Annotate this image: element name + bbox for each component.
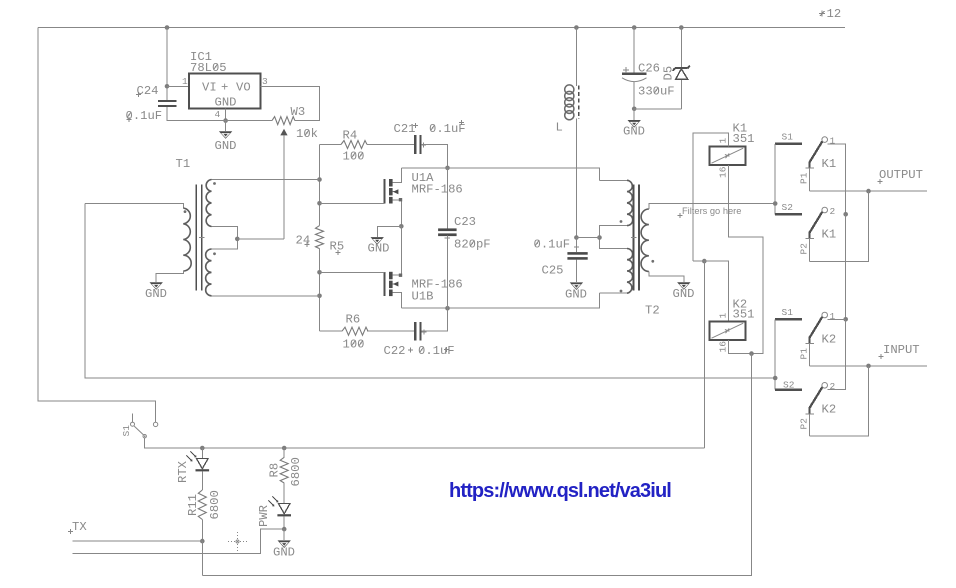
wire T1 center tap — [212, 227, 238, 250]
svg-text:3: 3 — [262, 76, 268, 87]
svg-text:C21: C21 — [394, 122, 416, 136]
svg-text:GND: GND — [623, 125, 645, 139]
wire K1 contacts common loop — [774, 144, 776, 214]
svg-text:C22: C22 — [384, 344, 406, 358]
node cursor crosshair — [228, 532, 247, 551]
node O1 pivot circle K2a — [822, 312, 828, 318]
wire OUTPUT line — [810, 190, 927, 192]
node junction dot PWR/GND — [282, 527, 287, 532]
resistor R8 6800 — [268, 448, 304, 503]
transformer T1 primary winding — [183, 208, 191, 271]
transformer T2 primary bottom winding — [627, 249, 633, 294]
wire top drain rail U1A to T2 — [401, 168, 599, 180]
node junction dot top rail at IC1 branch — [165, 25, 170, 30]
node junction dot relay coils return — [749, 351, 754, 356]
resistor R11 6800 — [186, 490, 222, 541]
wire T1 primary bottom lead — [156, 271, 183, 282]
svg-text:78L05: 78L05 — [190, 61, 227, 75]
node junction dot O1 K2a — [843, 317, 848, 322]
node junction dot K2 common feed — [773, 376, 778, 381]
wire relay feed down to S1 — [703, 261, 705, 448]
wire T2 primary top lead — [599, 179, 627, 181]
wire pin1 to IC1 — [167, 85, 189, 87]
node junction dot T2 center tap — [597, 235, 602, 240]
node O2 pivot circle K2b — [822, 383, 828, 389]
node junction dot U1A gate — [317, 201, 322, 206]
wire P1 terminal K1a — [805, 168, 814, 191]
wire center tap to W3 wiper — [237, 238, 284, 240]
capacitor C25 0.1uF — [534, 237, 588, 282]
switch armature K1b — [810, 212, 823, 233]
wire bottom drain rail U1B to T2 — [401, 293, 599, 308]
switch S1 power — [121, 414, 158, 438]
ground GND under IC1 pin4 — [215, 121, 237, 153]
node T2 secondary phase dot — [651, 260, 654, 263]
wire O2 junction K1b — [843, 212, 848, 217]
svg-text:R5: R5 — [330, 240, 345, 254]
node junction dot INPUT — [866, 364, 871, 369]
svg-text:S1: S1 — [782, 132, 794, 143]
wire pin3 loop to W3 right end — [261, 86, 320, 120]
svg-text:351: 351 — [733, 307, 755, 321]
relay K1 coil 351 — [709, 122, 754, 166]
svg-text:24: 24 — [296, 234, 311, 248]
svg-text:2: 2 — [830, 206, 836, 217]
svg-text:L: L — [556, 121, 563, 135]
svg-text:R6: R6 — [346, 313, 361, 327]
wire P2 bottom loop to OUTPUT — [810, 191, 869, 261]
node junction dot K1 common feed — [773, 201, 778, 206]
wire U1B gate — [320, 271, 385, 273]
transformer T1 secondary bottom winding — [206, 249, 212, 296]
node junction dot T1 center tap — [235, 237, 240, 242]
wire left input loop — [85, 203, 775, 378]
wire P2 terminal K1b — [805, 239, 814, 262]
svg-text:GND: GND — [215, 139, 237, 153]
transformer T1 secondary top winding — [206, 180, 211, 227]
svg-text:4: 4 — [215, 109, 221, 120]
wire +12 top rail — [38, 27, 845, 29]
wire S1 to relay feed line — [145, 438, 705, 448]
node T1 secondary bottom phase dot — [213, 252, 216, 255]
switch armature K2b — [810, 387, 823, 408]
node junction dot rail D5 — [679, 25, 684, 30]
resistor W3 10k potentiometer — [272, 105, 318, 239]
svg-text:0.1uF: 0.1uF — [126, 109, 163, 123]
wire O2 stub K2b — [828, 319, 846, 389]
wire O1 stub K2a — [828, 318, 846, 320]
svg-text:R8: R8 — [268, 463, 282, 478]
wire P2 terminal K2b — [805, 414, 814, 436]
svg-text:16: 16 — [718, 341, 729, 353]
svg-text:C24: C24 — [137, 84, 159, 98]
svg-text:GND: GND — [145, 287, 167, 301]
svg-text:R4: R4 — [343, 129, 358, 143]
wire TX line — [72, 541, 202, 576]
wire P1 terminal K2a — [805, 344, 814, 366]
svg-text:W3: W3 — [291, 105, 306, 119]
inductor L — [556, 28, 579, 238]
capacitor C21 0.1uF — [394, 120, 466, 168]
svg-text:1: 1 — [182, 76, 188, 87]
wire T2 secondary bottom lead — [649, 272, 684, 283]
capacitor C23 820pF — [438, 168, 490, 308]
svg-text:TX: TX — [72, 520, 87, 534]
svg-text:Filters go here: Filters go here — [682, 206, 741, 216]
svg-text:https://www.qsl.net/va3iul: https://www.qsl.net/va3iul — [449, 480, 671, 502]
node T1 primary phase dot — [184, 210, 187, 213]
svg-text:GND: GND — [565, 287, 587, 301]
svg-text:2: 2 — [830, 381, 836, 392]
diode RTX LED — [176, 448, 209, 490]
svg-text:INPUT: INPUT — [883, 343, 920, 357]
wire INPUT line — [810, 365, 927, 367]
node +12 label — [819, 7, 841, 21]
node junction dot R8 branch — [282, 446, 287, 451]
svg-text:C26: C26 — [638, 62, 660, 76]
svg-text:330uF: 330uF — [638, 85, 675, 99]
svg-text:1: 1 — [830, 311, 836, 322]
wire from rail down to IC1 pin1 — [166, 28, 168, 87]
svg-text:K1: K1 — [822, 157, 837, 171]
svg-text:GND: GND — [215, 96, 237, 110]
node junction dot C26/D5 — [632, 107, 637, 112]
wire C24 bottom rail to W3 left — [167, 107, 272, 121]
svg-text:820pF: 820pF — [454, 238, 491, 252]
wire T2 center tap leads — [600, 226, 628, 249]
svg-text:GND: GND — [273, 546, 295, 560]
wire P2 bottom loop to INPUT — [810, 366, 869, 436]
svg-text:0.1uF: 0.1uF — [534, 237, 571, 251]
svg-text:S1: S1 — [121, 425, 132, 437]
transformer T2 primary top winding — [627, 180, 633, 225]
svg-text:100: 100 — [343, 150, 365, 164]
svg-text:6800: 6800 — [208, 490, 222, 519]
svg-text:S1: S1 — [782, 307, 794, 318]
wire R4 left down to gate bias rail — [319, 145, 321, 226]
op-amp IC1 78L05 regulator box — [189, 50, 261, 110]
resistor R5 24 gate bias — [296, 226, 345, 332]
node junction dot C23 bottom — [445, 306, 450, 311]
wire S2 stub K1b — [775, 213, 802, 215]
wire O-chain K1 to K2 — [845, 214, 847, 319]
svg-text:1: 1 — [718, 138, 729, 144]
node T1 secondary top phase dot — [213, 182, 216, 185]
wire K2 contacts common loop — [774, 319, 776, 389]
ground GND PWR — [273, 529, 295, 559]
svg-text:K1: K1 — [822, 227, 837, 241]
node junction dot pin4 — [223, 118, 228, 123]
svg-text:T1: T1 — [176, 157, 191, 171]
svg-text:6800: 6800 — [289, 457, 303, 486]
node junction dot OUTPUT — [866, 189, 871, 194]
wire K2 pin16 — [728, 340, 751, 354]
ground GND C26 — [623, 109, 645, 139]
svg-text:1: 1 — [718, 313, 729, 319]
node junction dot RTX branch — [200, 446, 205, 451]
svg-text:MRF-186: MRF-186 — [412, 183, 463, 197]
node junction dot relay feed — [702, 259, 707, 264]
node slashed zeros overlay — [127, 64, 658, 353]
ground GND T1 — [145, 282, 167, 301]
wire S2 stub K2b — [775, 388, 802, 390]
svg-text:RTX: RTX — [176, 460, 190, 483]
capacitor C24 — [126, 84, 177, 123]
svg-text:D5: D5 — [662, 66, 676, 81]
svg-text:100: 100 — [343, 338, 365, 352]
svg-text:OUTPUT: OUTPUT — [879, 168, 923, 182]
svg-text:12: 12 — [827, 7, 842, 21]
node junction dot pin1/C24 — [165, 84, 170, 89]
svg-text:C25: C25 — [542, 264, 564, 278]
wire TX return line to PWR node — [72, 529, 284, 553]
wire U1A gate — [320, 202, 385, 204]
diode PWR LED — [257, 497, 291, 530]
svg-text:P1: P1 — [799, 172, 810, 184]
svg-text:P2: P2 — [799, 418, 810, 430]
wire coil return to TX keying rail — [202, 354, 751, 576]
svg-text:351: 351 — [733, 132, 755, 146]
resistor R6 100 — [320, 313, 415, 352]
capacitor C22 0.1uF — [384, 308, 455, 358]
transistor U1B MRF-186 — [384, 226, 462, 308]
transformer T2 core — [631, 185, 639, 291]
wire T1 primary top lead from left loop — [85, 203, 183, 208]
svg-text:K2: K2 — [822, 332, 837, 346]
ground GND T2 — [673, 282, 695, 301]
wire T2 secondary top lead to K1 contacts — [649, 204, 775, 210]
svg-text:PWR: PWR — [257, 505, 271, 527]
node junction dot C25 tap — [574, 235, 579, 240]
switch armature K1a — [810, 141, 823, 162]
wire T1 secondary top lead — [212, 179, 320, 181]
transformer T2 secondary winding — [641, 209, 649, 272]
svg-text:U1B: U1B — [412, 290, 434, 304]
wire C25 tap to T2 center — [576, 237, 599, 239]
wire O1 to O-chain K1a — [828, 144, 846, 214]
svg-text:GND: GND — [673, 287, 695, 301]
node junction dot rail L — [574, 25, 579, 30]
resistor R4 100 — [320, 129, 415, 164]
capacitor C26 330uF electrolytic — [622, 28, 675, 109]
svg-text:T2: T2 — [645, 304, 660, 318]
wire left border down to S1 feed — [38, 28, 156, 423]
wire D5 bottom to C26 — [634, 108, 681, 110]
switch armature K2a — [810, 317, 823, 338]
node junction dot T1 bottom lead — [317, 294, 322, 299]
wire T1 secondary bottom lead — [212, 295, 320, 297]
ground GND between U1A U1B — [368, 226, 402, 255]
ground GND C25 — [565, 282, 587, 301]
svg-text:R11: R11 — [186, 494, 200, 516]
transistor U1A MRF-186 — [384, 168, 462, 226]
svg-text:10k: 10k — [296, 127, 318, 141]
node O2 pivot circle K1b — [822, 207, 828, 213]
svg-text:C23: C23 — [454, 215, 476, 229]
svg-text:VI: VI — [202, 81, 217, 95]
node junction dot U1B gate — [317, 270, 322, 275]
svg-text:0.1uF: 0.1uF — [429, 122, 466, 136]
relay K2 coil 351 — [709, 298, 754, 341]
wire S1 stub K2a — [775, 318, 802, 320]
svg-text:P1: P1 — [799, 348, 810, 360]
svg-text:S2: S2 — [782, 202, 794, 213]
node T2 primary bottom phase dot — [620, 290, 623, 293]
svg-text:0.1uF: 0.1uF — [418, 344, 455, 358]
wire T2 primary bottom lead — [599, 292, 627, 294]
node O1 pivot circle K1a — [822, 137, 828, 143]
wire relay feed to K2 pin1 — [693, 261, 728, 321]
svg-text:+: + — [221, 81, 228, 95]
wire K1 pin16 down — [728, 165, 763, 354]
wire K1 pin1 loop — [693, 133, 728, 261]
svg-text:16: 16 — [718, 166, 729, 178]
node junction dot sources/GND — [399, 224, 404, 229]
node junction dot TX/R11 — [200, 539, 205, 544]
svg-text:P2: P2 — [799, 243, 810, 255]
node junction dot drain rail / C21 — [445, 166, 450, 171]
svg-text:VO: VO — [236, 81, 251, 95]
transformer T1 core — [196, 185, 204, 291]
node T2 primary top phase dot — [620, 220, 623, 223]
wire pin4 down — [225, 108, 227, 120]
node junction dot T1 top lead — [317, 177, 322, 182]
svg-text:GND: GND — [368, 242, 390, 256]
svg-text:K2: K2 — [822, 403, 837, 417]
node junction dot rail C26 — [632, 25, 637, 30]
diode D5 zener — [662, 28, 690, 109]
svg-text:1: 1 — [830, 136, 836, 147]
wire S1 stub K1a — [775, 143, 802, 145]
